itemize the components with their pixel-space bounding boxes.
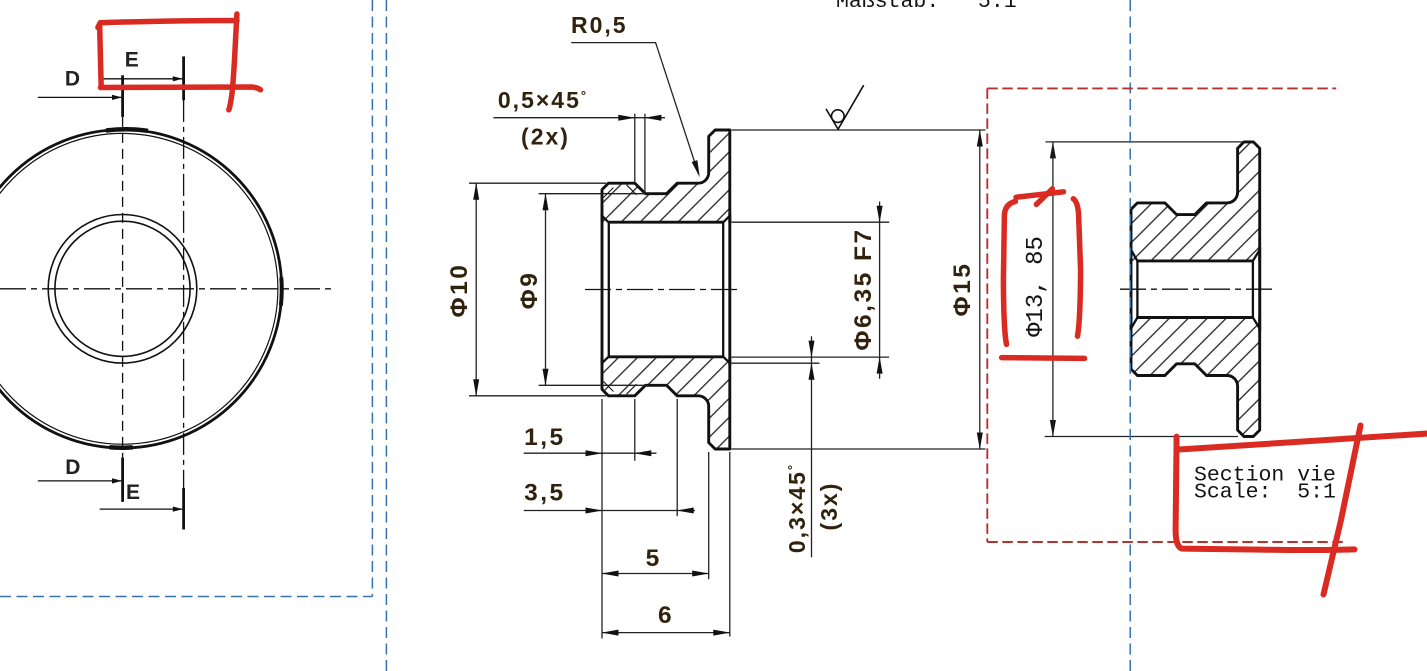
svg-text:R0,5: R0,5 (571, 12, 628, 38)
svg-text:3,5: 3,5 (524, 479, 566, 506)
svg-text:Φ15: Φ15 (949, 262, 976, 317)
svg-text:D: D (65, 68, 80, 91)
svg-text:E: E (126, 481, 140, 504)
svg-text:(3x): (3x) (816, 482, 842, 531)
svg-text:Φ6,35 F7: Φ6,35 F7 (850, 227, 877, 350)
svg-text:Φ9: Φ9 (516, 271, 543, 310)
svg-text:Scale: 5:1: Scale: 5:1 (1194, 481, 1336, 505)
svg-text:1,5: 1,5 (524, 424, 566, 451)
svg-text:0,3×45°: 0,3×45° (784, 463, 810, 553)
svg-text:5: 5 (646, 545, 662, 572)
svg-text:Φ10: Φ10 (446, 263, 473, 318)
svg-text:Φ13, 85: Φ13, 85 (1023, 236, 1050, 337)
svg-text:(2x): (2x) (521, 124, 570, 150)
svg-text:E: E (125, 49, 139, 72)
svg-text:D: D (65, 456, 80, 479)
svg-text:6: 6 (658, 602, 674, 629)
svg-text:0,5×45°: 0,5×45° (498, 87, 588, 113)
svg-text:Maßstab: 5:1: Maßstab: 5:1 (836, 0, 1017, 14)
